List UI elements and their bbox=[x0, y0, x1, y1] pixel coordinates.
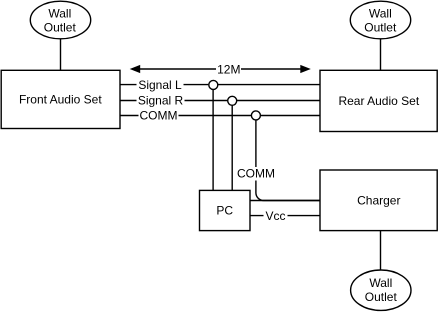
svg-text:Wall: Wall bbox=[369, 6, 392, 20]
svg-text:Front Audio Set: Front Audio Set bbox=[19, 93, 102, 107]
svg-text:COMM: COMM bbox=[237, 167, 275, 181]
label COMM (horizontal wire) bbox=[139, 109, 179, 123]
label Signal R bbox=[137, 94, 185, 108]
wall outlet (top-left) bbox=[30, 1, 90, 39]
block: Front Audio Set bbox=[1, 70, 120, 128]
svg-text:Outlet: Outlet bbox=[364, 20, 397, 34]
svg-text:Signal L: Signal L bbox=[138, 78, 182, 92]
wire Signal L: Front Audio Set to junction to Rear Audio Set bbox=[120, 84, 320, 86]
svg-text:Wall: Wall bbox=[48, 6, 71, 20]
wire W3: Charger to wall outlet (bottom-right) bbox=[380, 231, 382, 271]
wire COMM: Front Audio Set to junction to Rear Audio Set bbox=[120, 115, 320, 117]
junction node: Signal R tap bbox=[228, 96, 237, 105]
wire: PC to Charger (COMM line at PC right edge) bbox=[250, 200, 320, 202]
svg-text:Outlet: Outlet bbox=[365, 290, 398, 304]
block: PC bbox=[200, 190, 251, 230]
junction node: COMM tap bbox=[251, 111, 260, 120]
block: Charger bbox=[320, 170, 437, 231]
label Signal L bbox=[137, 78, 184, 92]
wire Signal R: Front Audio Set to junction to Rear Audio Set bbox=[120, 100, 320, 102]
label COMM (vertical drop wire) bbox=[237, 167, 277, 181]
wire: Signal L junction drop to PC bbox=[212, 89, 214, 190]
svg-text:Signal R: Signal R bbox=[138, 94, 184, 108]
wire W2: wall outlet (top-right) to Rear Audio Set bbox=[380, 39, 382, 71]
svg-text:Charger: Charger bbox=[357, 194, 400, 208]
wire W1: wall outlet (top-left) to Front Audio Set bbox=[60, 39, 62, 71]
svg-text:PC: PC bbox=[216, 204, 233, 218]
svg-text:Rear Audio Set: Rear Audio Set bbox=[338, 94, 419, 108]
label Vcc bbox=[264, 209, 288, 223]
svg-text:Wall: Wall bbox=[369, 276, 392, 290]
wire Vcc: PC to Charger bbox=[250, 215, 320, 217]
wire: Signal R junction drop to PC bbox=[231, 105, 233, 190]
block: Rear Audio Set bbox=[320, 70, 437, 131]
distance arrow 12M (double-headed) bbox=[130, 65, 311, 73]
junction node: Signal L tap bbox=[209, 80, 218, 89]
svg-text:Vcc: Vcc bbox=[265, 209, 285, 223]
wall outlet (bottom-right) bbox=[351, 270, 411, 310]
svg-text:Outlet: Outlet bbox=[44, 20, 77, 34]
svg-text:12M: 12M bbox=[217, 62, 240, 76]
wire: COMM junction drop, bend right to Charger bbox=[256, 120, 320, 200]
svg-text:COMM: COMM bbox=[140, 109, 178, 123]
wall outlet (top-right) bbox=[350, 1, 410, 39]
label 12M bbox=[216, 62, 241, 76]
